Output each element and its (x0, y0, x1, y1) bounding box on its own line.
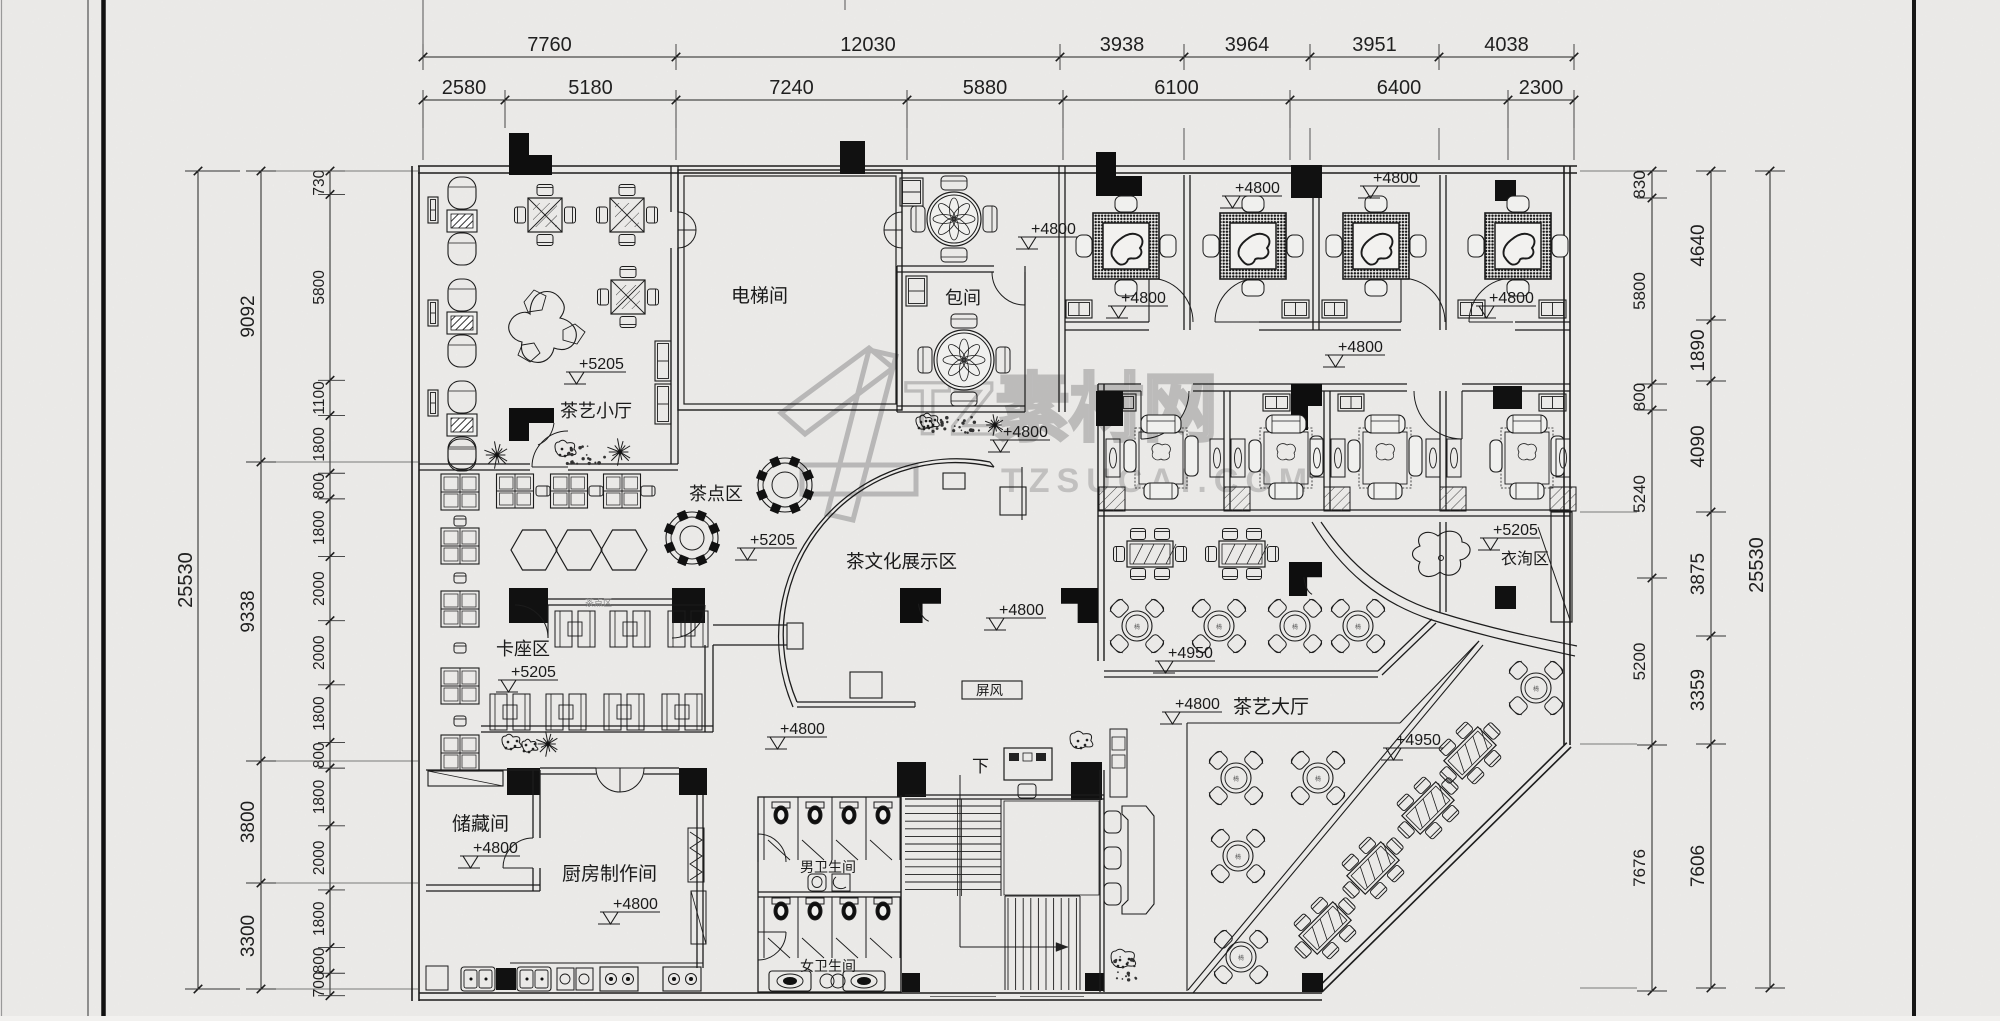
svg-text:700: 700 (311, 971, 328, 997)
svg-text:椅: 椅 (1233, 775, 1239, 783)
svg-text:下: 下 (972, 757, 989, 776)
svg-text:5240: 5240 (1630, 475, 1649, 513)
svg-text:2000: 2000 (311, 840, 328, 875)
svg-text:9338: 9338 (238, 590, 259, 632)
svg-text:1800: 1800 (311, 779, 328, 814)
svg-text:衣洵区: 衣洵区 (1501, 550, 1549, 568)
svg-text:茶文化展示区: 茶文化展示区 (846, 551, 957, 572)
svg-text:830: 830 (1630, 170, 1649, 198)
svg-text:7760: 7760 (527, 34, 572, 56)
svg-text:4640: 4640 (1688, 224, 1709, 266)
svg-text:+4800: +4800 (1031, 221, 1076, 238)
svg-text:3359: 3359 (1688, 669, 1709, 711)
svg-text:3938: 3938 (1100, 34, 1145, 56)
svg-text:1100: 1100 (311, 381, 328, 415)
svg-text:+4800: +4800 (1235, 180, 1280, 197)
svg-text:椅: 椅 (1134, 623, 1140, 631)
svg-text:1800: 1800 (311, 696, 328, 731)
svg-text:厨房制作间: 厨房制作间 (562, 863, 657, 885)
svg-text:1800: 1800 (311, 427, 328, 462)
svg-text:+4800: +4800 (1489, 290, 1534, 307)
svg-text:男卫生间: 男卫生间 (800, 859, 856, 875)
svg-text:+5205: +5205 (1493, 522, 1538, 539)
svg-text:2580: 2580 (442, 77, 487, 99)
svg-text:女卫生间: 女卫生间 (800, 958, 856, 974)
svg-text:椅: 椅 (1235, 853, 1241, 861)
svg-text:5180: 5180 (568, 77, 613, 99)
svg-text:卡座区: 卡座区 (496, 639, 550, 659)
svg-text:茶艺大厅: 茶艺大厅 (1233, 696, 1309, 718)
svg-text:电梯间: 电梯间 (731, 285, 788, 307)
svg-text:+4800: +4800 (780, 721, 825, 738)
svg-text:5880: 5880 (963, 77, 1008, 99)
svg-text:9092: 9092 (238, 295, 259, 337)
svg-text:25530: 25530 (175, 552, 197, 608)
svg-text:800: 800 (311, 947, 328, 973)
svg-text:4038: 4038 (1484, 34, 1529, 56)
svg-text:包间: 包间 (945, 288, 981, 308)
svg-text:800: 800 (311, 473, 328, 499)
svg-text:5800: 5800 (311, 270, 328, 305)
svg-text:730: 730 (311, 169, 328, 195)
svg-text:+4800: +4800 (1175, 696, 1220, 713)
svg-text:2000: 2000 (311, 571, 328, 606)
svg-text:+4800: +4800 (999, 602, 1044, 619)
svg-text:5200: 5200 (1630, 643, 1649, 681)
svg-text:3875: 3875 (1688, 553, 1709, 595)
svg-text:3300: 3300 (238, 915, 259, 957)
svg-text:+5205: +5205 (579, 356, 624, 373)
svg-text:3964: 3964 (1225, 34, 1270, 56)
svg-text:+4800: +4800 (1121, 290, 1166, 307)
svg-text:7240: 7240 (769, 77, 814, 99)
svg-text:5800: 5800 (1630, 272, 1649, 310)
svg-text:储藏间: 储藏间 (452, 813, 509, 835)
svg-text:椅: 椅 (1533, 685, 1539, 693)
svg-text:25530: 25530 (1746, 537, 1768, 593)
svg-text:+4950: +4950 (1168, 645, 1213, 662)
svg-text:1800: 1800 (311, 510, 328, 545)
svg-text:茶点区: 茶点区 (585, 597, 612, 608)
svg-text:屏风: 屏风 (976, 683, 1004, 698)
svg-text:800: 800 (1630, 383, 1649, 411)
svg-text:茶点区: 茶点区 (689, 484, 743, 504)
svg-text:3800: 3800 (238, 801, 259, 843)
svg-text:椅: 椅 (1238, 954, 1244, 962)
svg-text:椅: 椅 (1315, 775, 1321, 783)
svg-text:+4800: +4800 (1373, 170, 1418, 187)
svg-text:+4800: +4800 (613, 896, 658, 913)
svg-text:6100: 6100 (1154, 77, 1199, 99)
svg-text:+5205: +5205 (750, 532, 795, 549)
svg-text:7606: 7606 (1688, 845, 1709, 887)
svg-text:+4800: +4800 (473, 840, 518, 857)
svg-text:3951: 3951 (1352, 34, 1397, 56)
svg-text:椅: 椅 (1355, 623, 1361, 631)
svg-text:12030: 12030 (840, 34, 896, 56)
svg-text:2300: 2300 (1519, 77, 1564, 99)
svg-text:2000: 2000 (311, 635, 328, 670)
svg-text:1890: 1890 (1688, 329, 1709, 371)
svg-text:+4800: +4800 (1003, 424, 1048, 441)
svg-text:茶艺小厅: 茶艺小厅 (560, 401, 632, 421)
svg-text:800: 800 (311, 742, 328, 768)
svg-text:椅: 椅 (1216, 623, 1222, 631)
svg-text:+5205: +5205 (511, 664, 556, 681)
svg-text:+4800: +4800 (1338, 339, 1383, 356)
svg-text:4090: 4090 (1688, 425, 1709, 467)
svg-text:+4950: +4950 (1396, 732, 1441, 749)
svg-text:6400: 6400 (1377, 77, 1422, 99)
svg-text:7676: 7676 (1630, 849, 1649, 887)
svg-text:1800: 1800 (311, 901, 328, 936)
svg-text:椅: 椅 (1292, 623, 1298, 631)
